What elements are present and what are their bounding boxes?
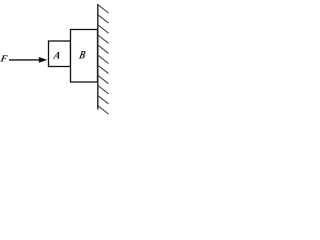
force arrow wire bbox=[9, 59, 41, 61]
wall line bbox=[97, 4, 99, 110]
wall hatching bbox=[98, 5, 109, 114]
force arrowhead bbox=[39, 57, 48, 63]
svg-text:F: F bbox=[0, 54, 9, 65]
block A bbox=[49, 41, 71, 67]
block B bbox=[71, 30, 98, 83]
